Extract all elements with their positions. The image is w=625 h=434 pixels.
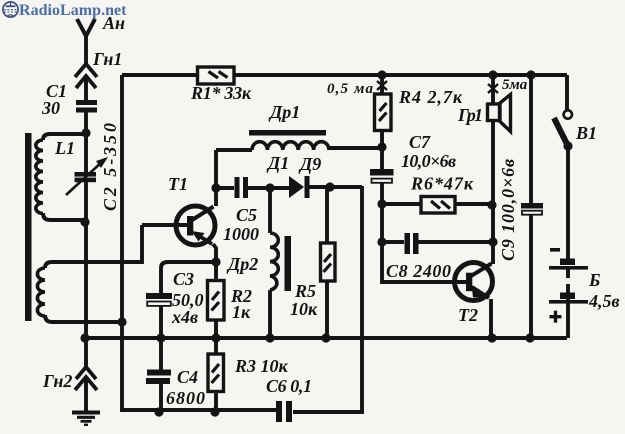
svg-text:Гн2: Гн2 (42, 371, 72, 391)
svg-text:RadioLamp.net: RadioLamp.net (19, 2, 127, 19)
svg-text:Гн1: Гн1 (92, 49, 122, 69)
svg-text:6800: 6800 (166, 388, 205, 408)
svg-text:10,0×6в: 10,0×6в (401, 151, 456, 171)
svg-text:Др1: Др1 (268, 102, 300, 122)
svg-text:Др2: Др2 (226, 254, 258, 274)
svg-text:R4 2,7к: R4 2,7к (398, 87, 463, 107)
svg-text:30: 30 (41, 98, 60, 118)
svg-text:С6 0,1: С6 0,1 (266, 376, 312, 396)
svg-text:R3 10к: R3 10к (234, 356, 289, 376)
svg-text:С4: С4 (177, 367, 198, 387)
svg-text:Т1: Т1 (168, 174, 188, 194)
svg-text:R5: R5 (294, 281, 316, 301)
svg-text:С3: С3 (173, 269, 194, 289)
svg-text:Д9: Д9 (298, 154, 321, 174)
svg-text:С8 2400: С8 2400 (386, 261, 451, 281)
svg-text:Б: Б (588, 270, 600, 290)
svg-text:С9 100,0×6в: С9 100,0×6в (498, 159, 518, 261)
svg-text:0,5 ма: 0,5 ма (327, 81, 374, 97)
svg-text:1к: 1к (232, 302, 251, 322)
svg-text:R6*47к: R6*47к (410, 174, 474, 194)
svg-text:10к: 10к (290, 299, 318, 319)
svg-text:В1: В1 (575, 123, 597, 143)
svg-text:С7: С7 (409, 132, 431, 152)
svg-text:1000: 1000 (223, 224, 259, 244)
svg-text:Д1: Д1 (266, 153, 289, 173)
svg-text:5ма: 5ма (502, 77, 528, 93)
svg-text:С5: С5 (236, 205, 257, 225)
svg-text:х4в: х4в (171, 307, 198, 327)
svg-text:R1* 33к: R1* 33к (190, 83, 252, 103)
svg-text:Гр1: Гр1 (457, 105, 483, 125)
svg-text:4,5в: 4,5в (588, 291, 620, 311)
svg-text:L1: L1 (54, 138, 75, 158)
svg-text:Т2: Т2 (458, 305, 478, 325)
